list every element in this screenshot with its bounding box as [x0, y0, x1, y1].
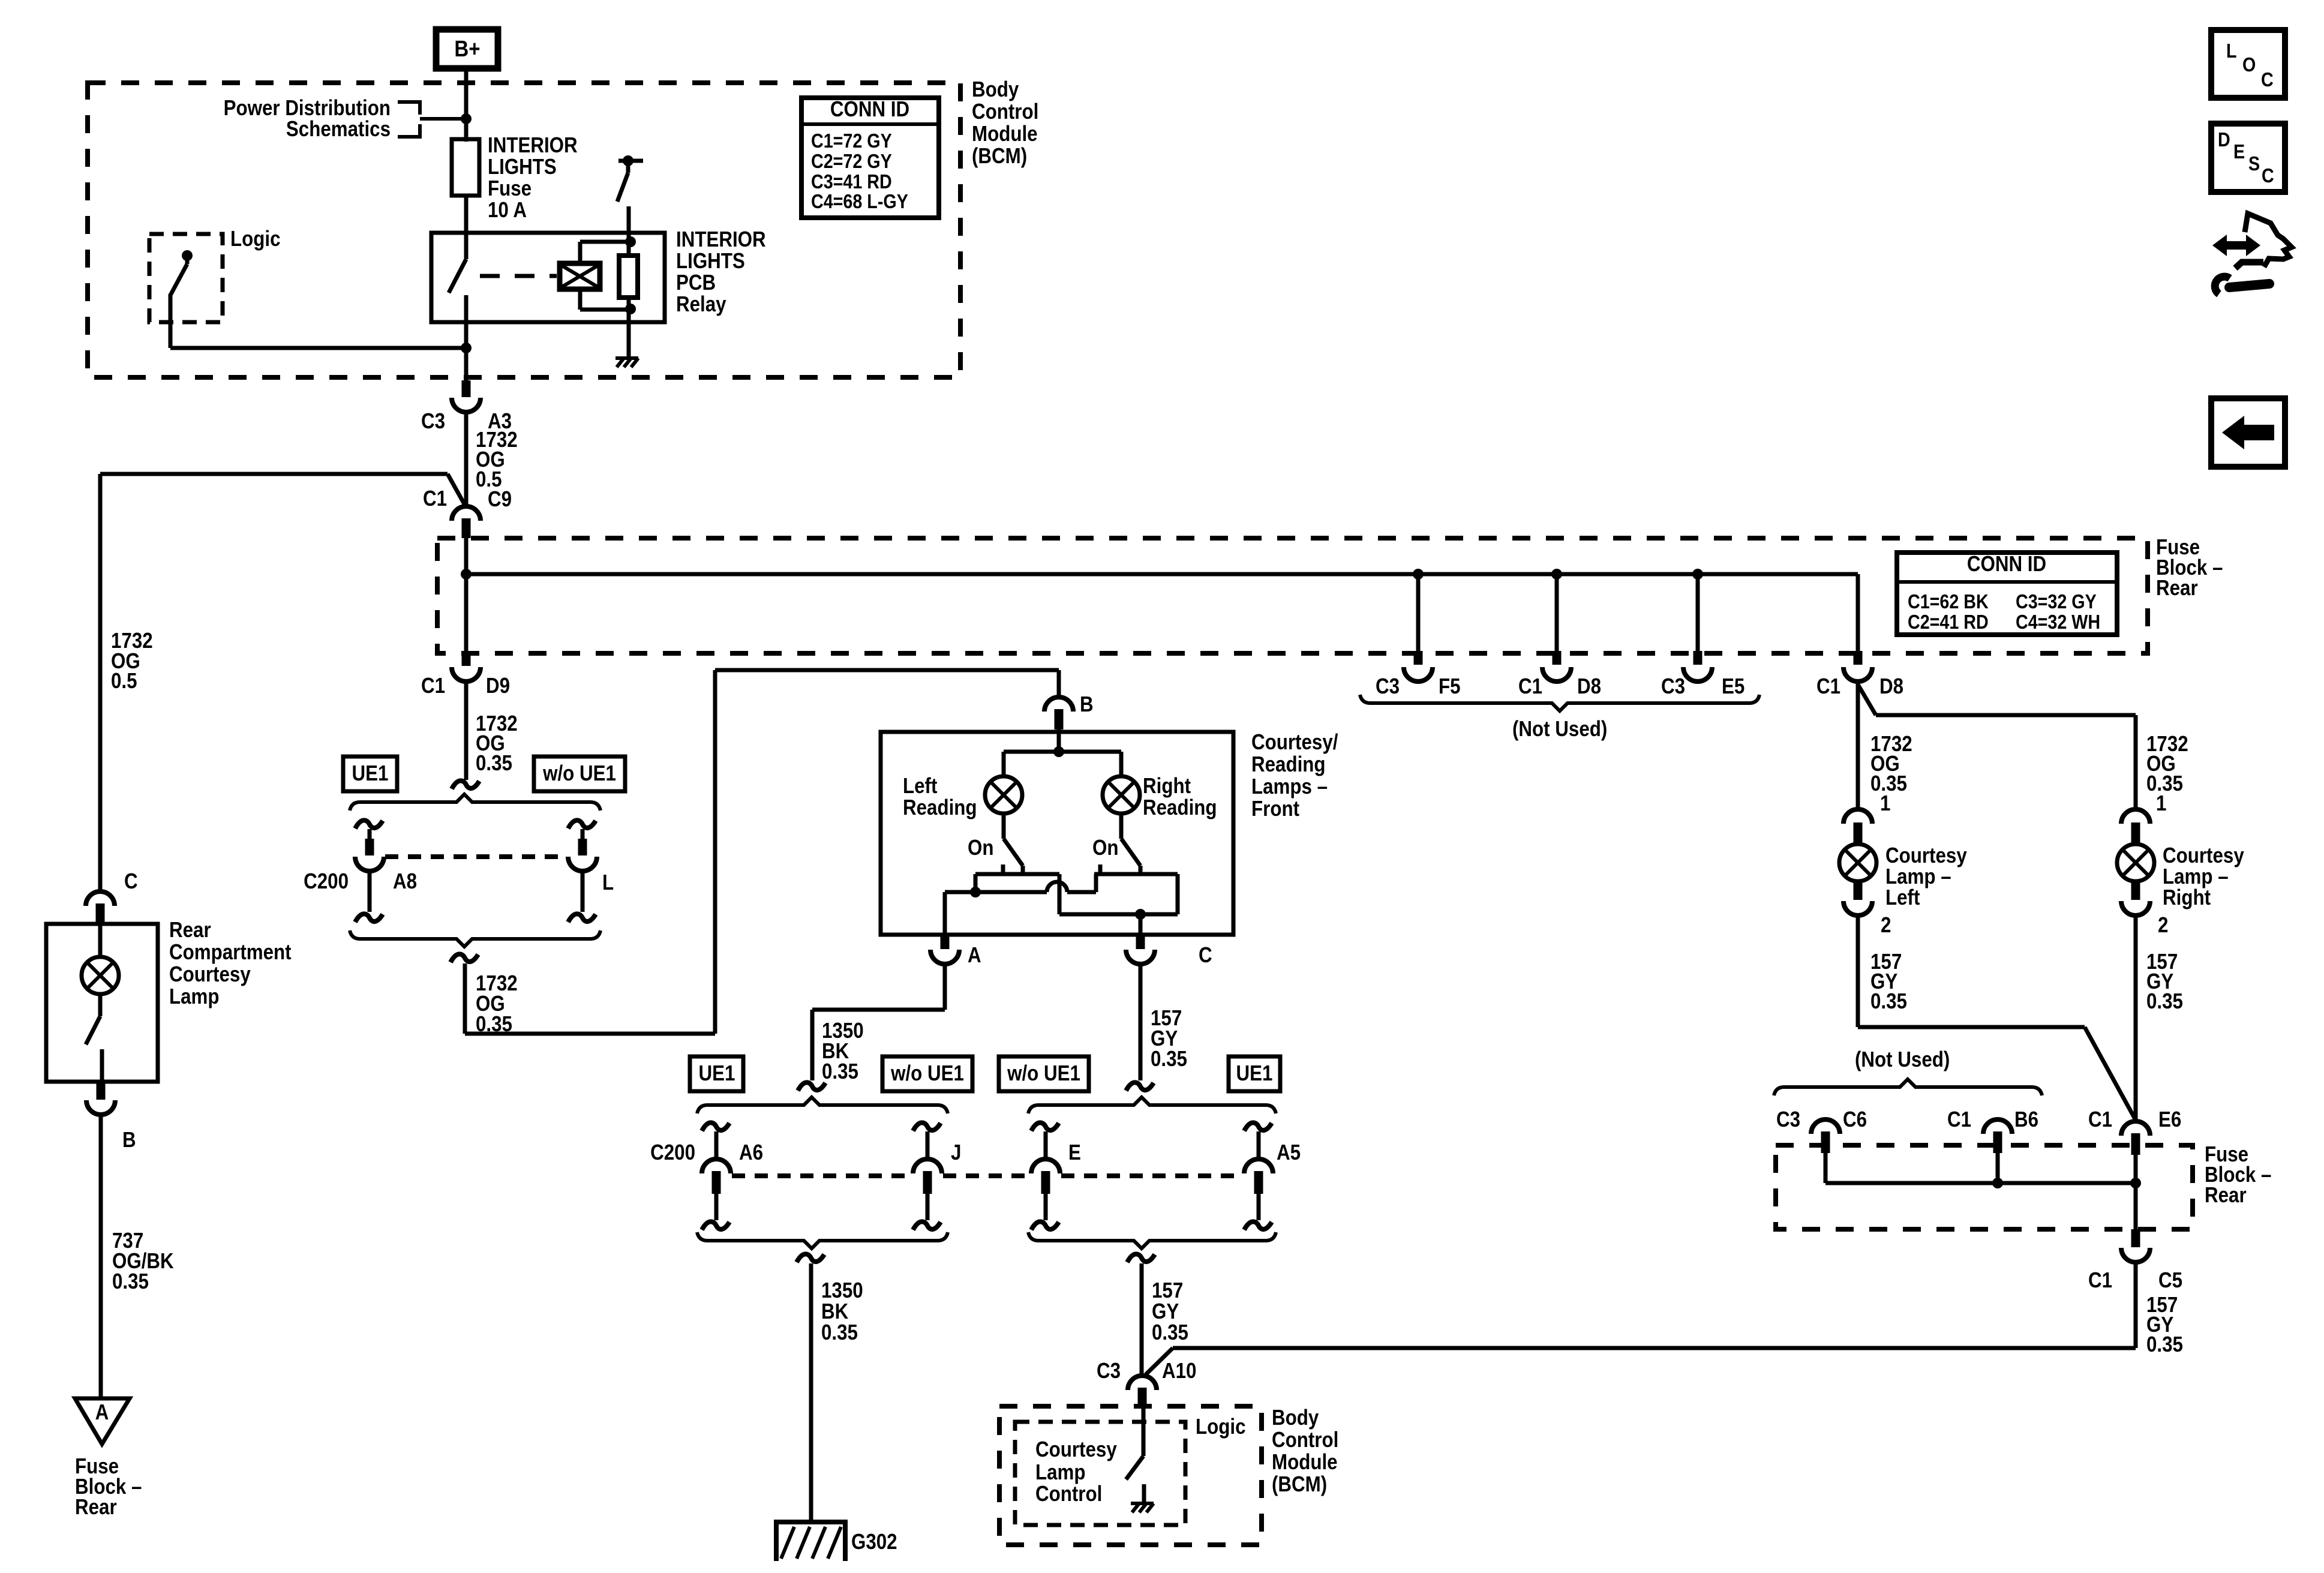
svg-text:C1: C1	[421, 674, 445, 698]
label Rear Compartment Courtesy Lamp	[169, 918, 292, 1009]
svg-text:C200: C200	[650, 1140, 695, 1165]
svg-text:Module: Module	[972, 122, 1038, 146]
option box w/o UE1 (E)	[999, 1056, 1089, 1091]
svg-text:Left: Left	[903, 774, 937, 798]
svg-text:Fuse: Fuse	[488, 176, 532, 201]
svg-text:2: 2	[2158, 913, 2168, 938]
svg-text:B6: B6	[2014, 1107, 2038, 1132]
connector C (rear lamp)	[86, 891, 115, 924]
connector C3/C6 (not used)	[1811, 1119, 1840, 1153]
label On (right)	[1092, 836, 1118, 860]
label Courtesy Lamp - Right	[2163, 843, 2244, 910]
connector C200 J	[913, 1122, 942, 1230]
switch relay contact	[449, 233, 466, 348]
connector C1/C9	[452, 506, 481, 538]
wire branch to rear lamp	[100, 474, 465, 891]
option break above A6 group	[798, 1082, 825, 1091]
label C3	[1097, 1359, 1121, 1383]
wire lamp right to fuse block E6	[2134, 915, 2138, 1120]
connector C3/F5 (not used)	[1404, 651, 1433, 682]
svg-text:w/o UE1: w/o UE1	[1007, 1061, 1080, 1086]
svg-text:C2=72 GY: C2=72 GY	[811, 150, 892, 172]
label C1 C5	[2088, 1268, 2182, 1293]
svg-text:C3: C3	[1661, 674, 1685, 699]
wire logic to relay output	[170, 346, 466, 350]
option box w/o UE1	[534, 757, 625, 791]
label C3 C6	[1776, 1107, 1867, 1132]
connector C1/E6	[2121, 1121, 2150, 1155]
svg-text:E: E	[1068, 1140, 1081, 1165]
label E	[1068, 1140, 1081, 1165]
svg-text:L: L	[602, 870, 614, 895]
svg-text:C3: C3	[1376, 674, 1400, 699]
svg-text:Right: Right	[1143, 774, 1191, 798]
svg-text:Logic: Logic	[1196, 1415, 1245, 1439]
label C	[1199, 943, 1212, 968]
svg-text:B: B	[1080, 692, 1094, 717]
label A3	[488, 409, 512, 434]
wire stub E5	[1692, 569, 1703, 653]
wire contact to relay	[627, 206, 631, 233]
label 1732 OG 0.35 (reading lamps feed)	[476, 971, 518, 1037]
logic box Courtesy Lamp Control Logic	[1015, 1422, 1185, 1525]
connector C200 A8	[355, 820, 384, 922]
svg-text:Rear: Rear	[169, 918, 211, 942]
connector pin 1 (lamp left)	[1843, 791, 1890, 843]
label On (left)	[968, 836, 993, 860]
icon LOC box	[2211, 30, 2285, 98]
connector C1/D9	[452, 651, 481, 682]
svg-text:CONN ID: CONN ID	[830, 97, 909, 122]
label Body Control Module (BCM) 2	[1272, 1406, 1338, 1497]
connector pin 1 (lamp right)	[2121, 791, 2166, 843]
svg-text:On: On	[968, 836, 993, 860]
svg-text:Courtesy: Courtesy	[169, 962, 251, 987]
label 1732 OG 0.35 (left)	[1870, 732, 1912, 796]
fuse block box 2 Fuse Block - Rear	[1776, 1145, 2193, 1229]
ground relay coil ground	[615, 358, 638, 367]
svg-text:C5: C5	[2158, 1268, 2182, 1293]
svg-text:C200: C200	[304, 869, 349, 894]
svg-text:S: S	[2248, 152, 2260, 175]
svg-text:0.35: 0.35	[821, 1320, 858, 1345]
option break below E group	[1127, 1254, 1155, 1262]
node junction relay output / logic	[461, 343, 472, 353]
svg-text:B: B	[122, 1128, 136, 1152]
svg-text:(BCM): (BCM)	[1272, 1472, 1327, 1497]
svg-text:C1: C1	[2088, 1107, 2112, 1132]
label C3 E5	[1661, 674, 1744, 699]
svg-text:A5: A5	[1277, 1140, 1301, 1165]
option break above UE1 group	[452, 781, 479, 789]
label Power Distribution Schematics	[224, 96, 391, 142]
svg-text:1: 1	[2156, 791, 2166, 816]
option box UE1 (A6)	[690, 1056, 743, 1091]
svg-text:C4=32 WH: C4=32 WH	[2016, 611, 2100, 633]
wire fuse block 2 internals	[1825, 1153, 2136, 1229]
label 1732 OG 0.5 (left branch)	[111, 629, 153, 694]
label C1	[423, 487, 447, 511]
svg-text:D9: D9	[486, 674, 510, 698]
label (Not Used)	[1512, 717, 1607, 742]
svg-text:Reading: Reading	[1143, 795, 1217, 820]
wire circuit 1732 OG 0.5	[464, 412, 469, 506]
svg-text:0.5: 0.5	[111, 669, 137, 694]
svg-text:Right: Right	[2163, 885, 2211, 910]
icon DESC box	[2211, 124, 2285, 192]
fuse block box Fuse Block - Rear	[437, 538, 2148, 653]
label A8	[393, 869, 417, 894]
svg-text:0.35: 0.35	[476, 751, 512, 776]
option break above E group	[1126, 1082, 1154, 1091]
svg-text:Logic: Logic	[230, 227, 280, 251]
label L	[602, 870, 614, 895]
connector C1/B6 (not used)	[1983, 1119, 2012, 1153]
connector C1/D8 (not used)	[1542, 651, 1571, 682]
fuse INTERIOR LIGHTS Fuse 10 A	[452, 139, 479, 233]
node E6 junction	[2130, 1178, 2141, 1188]
option box UE1	[343, 757, 397, 791]
svg-text:Rear: Rear	[2205, 1183, 2247, 1208]
label 1732 OG 0.5	[476, 428, 518, 492]
brace A6/J options bottom	[697, 1232, 948, 1248]
svg-text:C3: C3	[1097, 1359, 1121, 1383]
label J	[951, 1140, 961, 1165]
off-page triangle A to Fuse Block Rear	[75, 1398, 130, 1444]
wire circuit 1350 BK 0.35 to ground	[809, 1263, 813, 1524]
label Body Control Module (BCM)	[972, 77, 1038, 169]
svg-text:0.35: 0.35	[1152, 1320, 1188, 1345]
svg-text:(Not Used): (Not Used)	[1512, 717, 1607, 742]
bracket to Power Distribution Schematics	[398, 102, 466, 137]
connector A (reading lamps)	[930, 935, 959, 964]
svg-text:(Not Used): (Not Used)	[1855, 1047, 1950, 1072]
connector pin 2 (lamp left)	[1843, 882, 1891, 938]
label 1350 BK 0.35 (2)	[821, 1278, 863, 1345]
svg-text:Relay: Relay	[676, 292, 726, 317]
svg-text:C1: C1	[1816, 674, 1840, 699]
label Left Reading	[903, 774, 977, 820]
wire lamp left to fuse block E6	[1858, 915, 2136, 1120]
svg-text:B+: B+	[454, 36, 480, 62]
wire B+ to fuse	[464, 71, 469, 142]
connector C200 A5	[1244, 1122, 1273, 1230]
label Logic (2)	[1196, 1415, 1245, 1439]
svg-text:Left: Left	[1885, 885, 1920, 910]
svg-text:C: C	[1199, 943, 1212, 968]
switch courtesy lamp control driver	[1126, 1405, 1144, 1502]
svg-text:0.35: 0.35	[1151, 1047, 1187, 1071]
lamp Courtesy Lamp - Right	[2117, 844, 2154, 881]
svg-text:C: C	[2261, 68, 2274, 91]
lamp Left Reading	[985, 752, 1022, 813]
svg-text:(BCM): (BCM)	[972, 144, 1027, 169]
svg-text:C1=62 BK: C1=62 BK	[1908, 590, 1989, 613]
wire circuit 157 GY 0.35 to BCM	[1140, 1263, 1144, 1376]
label 1732 OG 0.35 (right)	[2146, 732, 2188, 796]
label (Not Used) 2	[1855, 1047, 1950, 1072]
option box w/o UE1 (J)	[882, 1056, 972, 1091]
svg-text:w/o UE1: w/o UE1	[542, 761, 616, 786]
label Courtesy/Reading Lamps - Front	[1251, 730, 1338, 821]
svg-text:Control: Control	[972, 100, 1038, 124]
svg-text:C4=68 L-GY: C4=68 L-GY	[811, 190, 908, 212]
svg-text:E: E	[2233, 140, 2245, 163]
svg-text:0.35: 0.35	[1870, 989, 1907, 1014]
connector C3/A10	[1128, 1376, 1157, 1405]
svg-text:G302: G302	[851, 1530, 897, 1554]
lamp rear compartment bulb	[82, 924, 119, 994]
svg-text:C1=72 GY: C1=72 GY	[811, 130, 892, 152]
switch left reading lamp switch	[1003, 812, 1023, 874]
node coil top junction	[625, 236, 636, 247]
label A5	[1277, 1140, 1301, 1165]
label C1 D8	[1518, 674, 1601, 699]
coil relay coil	[560, 263, 600, 289]
lamp box Courtesy/Reading Lamps - Front	[881, 732, 1233, 935]
label Logic	[230, 227, 280, 251]
label C1 D9	[421, 674, 510, 698]
svg-text:Lamps –: Lamps –	[1251, 775, 1328, 799]
svg-text:Body: Body	[1272, 1406, 1319, 1430]
svg-text:0.35: 0.35	[112, 1269, 149, 1294]
svg-text:A: A	[968, 943, 981, 968]
wire 157 GY to BCM A10	[1146, 1262, 2136, 1374]
svg-text:C3=41 RD: C3=41 RD	[811, 170, 892, 193]
node junction at B+ feed	[461, 113, 472, 124]
svg-text:A: A	[95, 1400, 109, 1425]
label Courtesy Lamp Control	[1035, 1437, 1117, 1506]
wire split to courtesy lamps	[1858, 682, 2136, 810]
svg-text:0.35: 0.35	[2146, 1332, 2183, 1357]
wire right contact network	[1059, 874, 1178, 920]
svg-text:Rear: Rear	[75, 1495, 117, 1520]
label INTERIOR LIGHTS Fuse 10 A	[488, 133, 578, 223]
icon back arrow box	[2211, 398, 2285, 467]
switch logic switch	[170, 250, 193, 348]
svg-text:CONN ID: CONN ID	[1967, 552, 2046, 577]
table CONN ID (BCM)	[801, 97, 939, 218]
connector C200 L	[568, 820, 597, 922]
label B	[122, 1128, 136, 1152]
icon wrench	[2215, 277, 2269, 294]
label 157 GY 0.35 (2)	[1152, 1278, 1188, 1345]
svg-text:Lamp: Lamp	[169, 984, 220, 1009]
label Fuse Block - Rear (left)	[75, 1454, 142, 1520]
svg-text:D: D	[2218, 128, 2230, 151]
module box Body Control Module (BCM) 2	[999, 1406, 1262, 1545]
wire circuit 737 OG/BK 0.35	[99, 1115, 103, 1398]
relay INTERIOR LIGHTS PCB Relay	[431, 233, 665, 322]
label 157 GY 0.35 (C5)	[2146, 1293, 2183, 1357]
option box UE1 (A5)	[1229, 1056, 1280, 1091]
svg-text:0.35: 0.35	[822, 1059, 858, 1084]
svg-text:Reading: Reading	[903, 795, 977, 820]
svg-text:0.35: 0.35	[476, 1012, 512, 1037]
connector B (reading lamps)	[1044, 697, 1073, 730]
label B	[1080, 692, 1094, 717]
svg-text:UE1: UE1	[352, 761, 389, 786]
label C1 E6	[2088, 1107, 2181, 1132]
svg-text:Compartment: Compartment	[169, 940, 292, 965]
node B6 junction	[1992, 1178, 2003, 1188]
label C3 F5	[1376, 674, 1461, 699]
label 157 GY 0.35	[1151, 1006, 1187, 1071]
svg-text:Courtesy: Courtesy	[1035, 1437, 1117, 1462]
svg-text:1: 1	[1880, 791, 1890, 816]
ground BCM logic ground	[1131, 1503, 1154, 1512]
connector C1/D8 (courtesy lamps feed)	[1843, 651, 1872, 682]
svg-text:D8: D8	[1577, 674, 1601, 699]
svg-text:C: C	[2262, 164, 2274, 187]
label C	[124, 869, 138, 894]
brace not-used group 2	[1774, 1079, 2042, 1095]
connector C3/A3 (BCM)	[452, 380, 481, 412]
wire circuit 1732 OG 0.35 to reading lamps	[465, 670, 1059, 1034]
svg-text:J: J	[951, 1140, 961, 1165]
svg-text:Control: Control	[1272, 1428, 1338, 1452]
wire relay actuator (dashed)	[480, 274, 557, 278]
option break below A6 group	[797, 1254, 824, 1262]
brace not-used group	[1360, 695, 1759, 711]
connector B (rear lamp)	[86, 1082, 115, 1115]
icon vehicle outline	[2235, 214, 2292, 268]
label INTERIOR LIGHTS PCB Relay	[676, 227, 766, 317]
label Courtesy Lamp - Left	[1885, 843, 1967, 910]
svg-text:C2=41 RD: C2=41 RD	[1908, 611, 1989, 633]
svg-text:E6: E6	[2158, 1107, 2181, 1132]
svg-text:Lamp: Lamp	[1035, 1460, 1086, 1485]
svg-text:C9: C9	[488, 487, 512, 512]
svg-text:F5: F5	[1439, 674, 1461, 699]
lamp Courtesy Lamp - Left	[1839, 844, 1876, 881]
wire circuit 1350 BK 0.35	[812, 964, 945, 1080]
svg-text:UE1: UE1	[699, 1061, 735, 1086]
svg-text:LIGHTS: LIGHTS	[488, 155, 557, 179]
resistor relay suppression resistor	[619, 256, 638, 298]
svg-text:Control: Control	[1035, 1482, 1102, 1506]
lamp Right Reading	[1103, 752, 1140, 813]
label Fuse Block - Rear	[2156, 535, 2223, 601]
svg-text:0.35: 0.35	[2146, 989, 2183, 1014]
svg-text:C3=32 GY: C3=32 GY	[2016, 590, 2097, 613]
brace E/A5 options top	[1028, 1097, 1276, 1113]
label A	[968, 943, 981, 968]
wire relay output down	[464, 348, 469, 380]
label C1 B6	[1947, 1107, 2038, 1132]
ground G302	[776, 1522, 845, 1561]
table CONN ID (fuse block)	[1897, 552, 2117, 635]
connector C (reading lamps)	[1126, 935, 1155, 964]
brace A6/J options top	[697, 1097, 948, 1113]
switch rear lamp switch	[86, 994, 102, 1082]
svg-text:Rear: Rear	[2156, 576, 2198, 601]
wire stub D8 (not used)	[1551, 569, 1562, 653]
svg-text:A6: A6	[739, 1140, 763, 1165]
svg-text:w/o UE1: w/o UE1	[890, 1061, 964, 1086]
label A6	[739, 1140, 763, 1165]
wire B into lamps	[1004, 730, 1121, 757]
svg-text:Schematics: Schematics	[286, 117, 391, 142]
svg-text:10 A: 10 A	[488, 198, 527, 223]
option break below UE1 group	[451, 954, 478, 962]
label Fuse Block - Rear 2	[2205, 1142, 2271, 1208]
label C200 (2)	[650, 1140, 695, 1165]
icon vehicle double arrow	[2212, 235, 2260, 256]
brace UE1 options bottom	[350, 930, 600, 947]
label 157 GY 0.35 (left)	[1870, 950, 1907, 1014]
svg-text:UE1: UE1	[1236, 1061, 1273, 1086]
svg-text:PCB: PCB	[676, 271, 716, 295]
svg-text:C1: C1	[423, 487, 447, 511]
wire left contact network	[945, 874, 1096, 897]
brace E/A5 options bottom	[1028, 1232, 1276, 1248]
brace UE1 options top	[350, 794, 600, 810]
svg-text:C: C	[124, 869, 138, 894]
switch relay control contact (upper)	[617, 155, 643, 202]
wire into fuse block	[464, 538, 469, 574]
label C9	[488, 487, 512, 512]
svg-text:C6: C6	[1843, 1107, 1867, 1132]
wire to A and C pins	[945, 892, 1140, 935]
label C3	[421, 409, 445, 434]
wire circuit 157 GY 0.35	[1139, 964, 1143, 1080]
connector C200 A6	[702, 1122, 731, 1230]
svg-text:On: On	[1092, 836, 1118, 860]
wire coil connections	[580, 206, 629, 356]
connector C1/C5	[2121, 1229, 2150, 1262]
label Right Reading	[1143, 774, 1217, 820]
svg-text:C1: C1	[1947, 1107, 1971, 1132]
svg-text:Module: Module	[1272, 1450, 1338, 1475]
svg-text:Reading: Reading	[1251, 752, 1326, 777]
logic box Logic (BCM relay driver)	[149, 234, 223, 322]
svg-text:E5: E5	[1722, 674, 1744, 699]
lamp box Rear Compartment Courtesy Lamp	[46, 924, 158, 1082]
svg-text:D8: D8	[1879, 674, 1903, 699]
wire circuit 1732 OG 0.35	[464, 682, 469, 780]
wire C200 mating line 2 (dashed)	[732, 1173, 1243, 1178]
svg-text:O: O	[2242, 53, 2256, 76]
module box Body Control Module (BCM)	[88, 83, 960, 377]
svg-text:L: L	[2226, 40, 2237, 62]
label C200	[304, 869, 349, 894]
svg-text:A10: A10	[1162, 1359, 1196, 1383]
svg-text:C3: C3	[1776, 1107, 1800, 1132]
svg-text:Body: Body	[972, 77, 1019, 102]
svg-text:LIGHTS: LIGHTS	[676, 249, 745, 274]
svg-text:INTERIOR: INTERIOR	[676, 227, 766, 252]
connector C3/E5 (not used)	[1683, 651, 1712, 682]
svg-text:C1: C1	[2088, 1268, 2112, 1293]
label 1350 BK 0.35	[822, 1019, 864, 1084]
connector pin 2 (lamp right)	[2121, 882, 2168, 938]
label A10	[1162, 1359, 1196, 1383]
svg-text:2: 2	[1881, 913, 1891, 938]
switch right reading lamp switch	[1100, 812, 1140, 874]
wire bus inside fuse block	[466, 574, 1858, 660]
connector C200 E	[1031, 1122, 1060, 1230]
svg-text:C1: C1	[1518, 674, 1542, 699]
label G302	[851, 1530, 897, 1554]
svg-text:C3: C3	[421, 409, 445, 434]
label 157 GY 0.35 (right)	[2146, 950, 2183, 1014]
svg-text:Courtesy/: Courtesy/	[1251, 730, 1338, 755]
label 737 OG/BK 0.35	[112, 1229, 174, 1294]
svg-text:A8: A8	[393, 869, 417, 894]
node bus junction	[461, 569, 472, 580]
wire stub F5	[1413, 569, 1424, 653]
